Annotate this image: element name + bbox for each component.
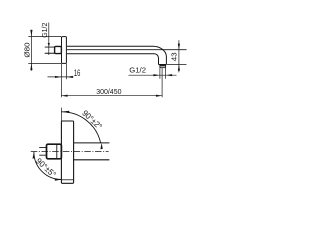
svg-text:G1/2: G1/2	[42, 23, 49, 38]
svg-text:43: 43	[170, 52, 179, 61]
svg-text:16: 16	[74, 68, 80, 79]
svg-text:300/450: 300/450	[96, 88, 121, 96]
svg-text:G1/2: G1/2	[129, 66, 146, 75]
svg-text:Ø80: Ø80	[23, 42, 32, 57]
